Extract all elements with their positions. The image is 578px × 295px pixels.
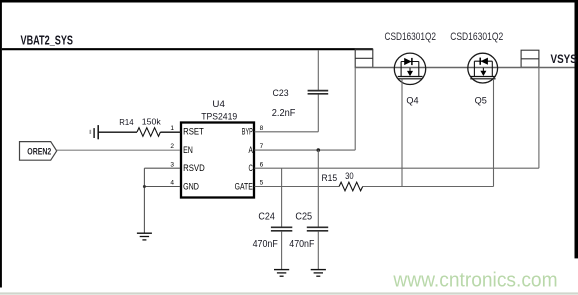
svg-text:2.2nF: 2.2nF [272,108,296,119]
label TPS2419 [201,112,237,122]
watermark www.cntronics.com [392,270,557,292]
label 30 [345,171,354,182]
pin name GND [183,182,199,192]
label CSD16301Q2 (Q5) [450,31,503,43]
svg-text:8: 8 [260,125,264,132]
pin number 5 [260,180,264,187]
svg-text:R15: R15 [322,173,338,184]
pin name BYP [242,127,253,137]
port OREN2 [20,142,57,161]
svg-text:VBAT2_SYS: VBAT2_SYS [21,33,74,48]
capacitor C23 [308,50,329,94]
wire EN (OREN2 to pin 2) [57,149,180,151]
wire pin 8 BYP to C23 [255,94,319,132]
svg-text:VSYS: VSYS [551,54,578,66]
svg-text:470nF: 470nF [289,238,314,250]
svg-text:OREN2: OREN2 [27,146,51,156]
pin name A [249,145,253,155]
wire right net-tie down to pin C line [538,68,540,169]
capacitor C24 470nF [271,227,292,269]
pin number 8 [260,125,264,132]
label C23 [273,88,289,99]
ground (C24) [274,270,289,277]
svg-text:GND: GND [183,182,199,192]
svg-text:150k: 150k [142,117,162,127]
wire pin 6 C to right column [255,167,539,169]
junction (A / C25) [317,148,321,152]
svg-text:CSD16301Q2: CSD16301Q2 [385,31,437,43]
svg-text:1: 1 [170,125,174,132]
net-tie rectangle (VBAT2_SYS to Q4 drain rail) [355,49,373,67]
svg-text:C24: C24 [258,211,275,223]
svg-text:GATE: GATE [235,182,253,192]
svg-text:TPS2419: TPS2419 [201,112,237,122]
label 2.2nF [272,108,296,119]
label 150k [142,117,162,127]
pin number 2 [170,143,174,150]
net VBAT2_SYS [21,33,74,48]
ground (sideways, RSET return) [90,125,98,139]
label R14 [119,117,133,127]
pin number 1 [170,125,174,132]
svg-text:CSD16301Q2: CSD16301Q2 [450,31,503,43]
resistor R14 150k [98,128,181,137]
svg-text:BYP: BYP [242,127,253,137]
pin number 3 [170,161,174,168]
svg-text:Q5: Q5 [475,96,487,106]
svg-text:www.cntronics.com: www.cntronics.com [392,270,557,292]
svg-text:30: 30 [345,171,354,182]
wire pin 5 GATE line [255,186,494,188]
label 470nF (C24) [253,238,278,250]
pin number 7 [260,143,264,150]
label C25 [295,211,312,223]
resistor R15 30 [339,182,363,191]
net VSYS [551,54,578,66]
svg-text:A: A [249,145,253,155]
wire pin 4 GND [144,186,180,188]
svg-text:RSET: RSET [183,127,204,137]
svg-text:R14: R14 [119,117,133,127]
label R15 [322,173,338,184]
svg-text:RSVD: RSVD [183,163,205,173]
svg-text:7: 7 [260,143,264,150]
transistor Q4 CSD16301Q2 [394,53,425,84]
capacitor C25 470nF [307,227,328,269]
wire VBAT2_SYS rail [2,48,373,50]
label C24 [258,211,275,223]
svg-text:C25: C25 [295,211,312,223]
svg-text:5: 5 [260,180,264,187]
svg-text:EN: EN [183,145,193,155]
wire Q5 gate [493,79,495,187]
wire pin 3 RSVD to ground rail [144,168,180,233]
label CSD16301Q2 (Q4) [385,31,437,43]
wire pin 6 down to C24 [281,168,283,226]
svg-text:C23: C23 [273,88,289,99]
svg-text:4: 4 [170,180,174,187]
svg-text:2: 2 [170,143,174,150]
label Q5 [475,96,487,106]
wire FET drain-source rail to VSYS [355,67,574,69]
wire pin 7 A to net-tie column [255,149,356,151]
wire left net-tie down to pin A line [354,68,356,151]
ground (U4 GND) [137,233,152,240]
svg-text:6: 6 [260,161,264,168]
net-tie rectangle (rail to VSYS) [521,50,539,67]
pin name RSVD [183,163,205,173]
svg-text:C: C [249,163,254,173]
svg-text:Q4: Q4 [406,96,418,106]
pin number 4 [170,180,174,187]
op IC U4 TPS2419 box [181,123,254,198]
junction (RSVD/GND) [143,185,146,188]
pin number 6 [260,161,264,168]
svg-text:3: 3 [170,161,174,168]
pin name RSET [183,127,204,137]
pin name EN [183,145,193,155]
ground (C25) [311,270,326,277]
svg-text:470nF: 470nF [253,238,278,250]
label 470nF (C25) [289,238,314,250]
svg-text:U4: U4 [212,99,225,110]
label U4 [212,99,225,110]
wire A junction down to C25 [317,150,319,226]
transistor Q5 CSD16301Q2 [468,53,498,83]
label Q4 [406,96,418,106]
pin name C [249,163,254,173]
pin name GATE [235,182,253,192]
wire Q4 gate [401,79,403,187]
